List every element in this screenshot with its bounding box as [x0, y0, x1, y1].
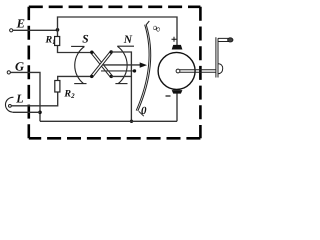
shaft hub	[176, 69, 180, 73]
terminal L	[9, 105, 12, 108]
wire brush bottom to rail	[176, 93, 178, 121]
spring terminal dot	[133, 69, 136, 72]
brush top	[172, 45, 183, 50]
pole N top edge	[117, 45, 134, 47]
minus label	[166, 95, 171, 97]
guard ring hook	[5, 97, 13, 112]
svg-text:R1: R1	[45, 35, 56, 47]
svg-text:∞: ∞	[150, 22, 162, 36]
coil 1 (voltage coil)	[92, 52, 112, 76]
bottom rail	[40, 120, 177, 122]
svg-text:0: 0	[141, 105, 147, 117]
crank grip	[218, 38, 229, 41]
wire L to R2	[11, 92, 57, 106]
crank base curl	[218, 64, 223, 74]
junction bottom rail	[130, 120, 133, 123]
scale arc	[138, 25, 151, 111]
wire coil bottom-right to return	[111, 75, 131, 77]
needle pointer	[103, 64, 141, 66]
wire node up and top rail	[58, 17, 178, 45]
scale tick zero	[139, 111, 144, 116]
resistor R2	[55, 81, 60, 93]
svg-text:R2: R2	[63, 88, 75, 100]
wire R2 to left coil bottom	[58, 76, 92, 80]
spring terminal wire	[101, 70, 134, 72]
resistor R1	[55, 37, 60, 46]
crank arm	[216, 37, 218, 77]
coil 2 (current coil)	[92, 52, 112, 76]
pole N face arc	[117, 46, 127, 83]
wire E to node	[13, 29, 58, 31]
node A junction	[56, 28, 60, 32]
pole N bottom edge	[115, 83, 127, 85]
coil terminal dots	[90, 51, 93, 54]
svg-text:E: E	[16, 16, 25, 30]
plus label	[172, 37, 177, 42]
pole S bottom edge	[74, 83, 86, 85]
wire guard ring to G line	[12, 111, 40, 113]
svg-text:N: N	[123, 34, 133, 46]
svg-text:S: S	[82, 34, 88, 46]
terminal G	[7, 71, 10, 74]
wire G down to bottom rail	[11, 72, 41, 121]
terminal E	[10, 29, 13, 32]
svg-text:G: G	[15, 59, 24, 73]
enclosure dashed border	[29, 7, 201, 139]
pole S top edge	[71, 45, 84, 47]
wire node down to R1	[57, 30, 59, 37]
svg-text:L: L	[15, 92, 23, 106]
wire R1 to left coil	[58, 46, 92, 53]
pole S face arc	[75, 47, 85, 84]
scale tick infinity	[146, 21, 149, 25]
wire coil top-right to bottom rail	[111, 52, 131, 121]
generator body	[158, 52, 195, 89]
crank shaft	[180, 70, 216, 72]
brush bottom	[172, 90, 183, 94]
junction guard	[38, 111, 42, 115]
